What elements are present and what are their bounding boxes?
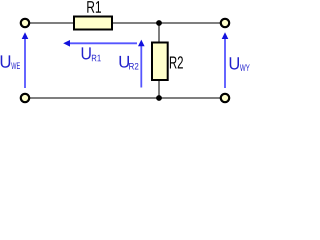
- arrow U_R2 head: [138, 40, 145, 47]
- wire bottom rail: [29, 97, 221, 99]
- label U_WY: [230, 57, 239, 69]
- terminal bottom-left: [21, 94, 29, 102]
- label U_R1: [82, 47, 91, 59]
- terminal top-left: [21, 19, 29, 27]
- terminal top-right: [221, 19, 229, 27]
- node junction bottom: [156, 95, 162, 101]
- arrow U_WY shaft: [224, 39, 226, 88]
- label U_R2: [120, 56, 130, 68]
- label R2: [170, 56, 183, 68]
- arrow U_R1 head: [63, 40, 70, 47]
- wire top-right (R1 to output terminal through node): [112, 22, 221, 24]
- label R1: [87, 1, 101, 13]
- arrow U_WE shaft: [24, 39, 26, 88]
- arrow U_R2 shaft: [140, 46, 142, 88]
- resistor R2: [152, 43, 168, 81]
- wire top-left (input terminal to R1): [29, 22, 74, 24]
- arrow U_R1 shaft: [69, 42, 138, 44]
- resistor R1: [74, 17, 112, 30]
- node junction top: [156, 20, 162, 26]
- wire R2 top lead: [158, 23, 160, 43]
- arrow U_WY head: [222, 32, 229, 39]
- wire R2 bottom lead: [158, 80, 160, 98]
- arrow U_WE head: [22, 32, 29, 39]
- terminal bottom-right: [221, 94, 229, 102]
- label U_WE: [1, 55, 11, 67]
